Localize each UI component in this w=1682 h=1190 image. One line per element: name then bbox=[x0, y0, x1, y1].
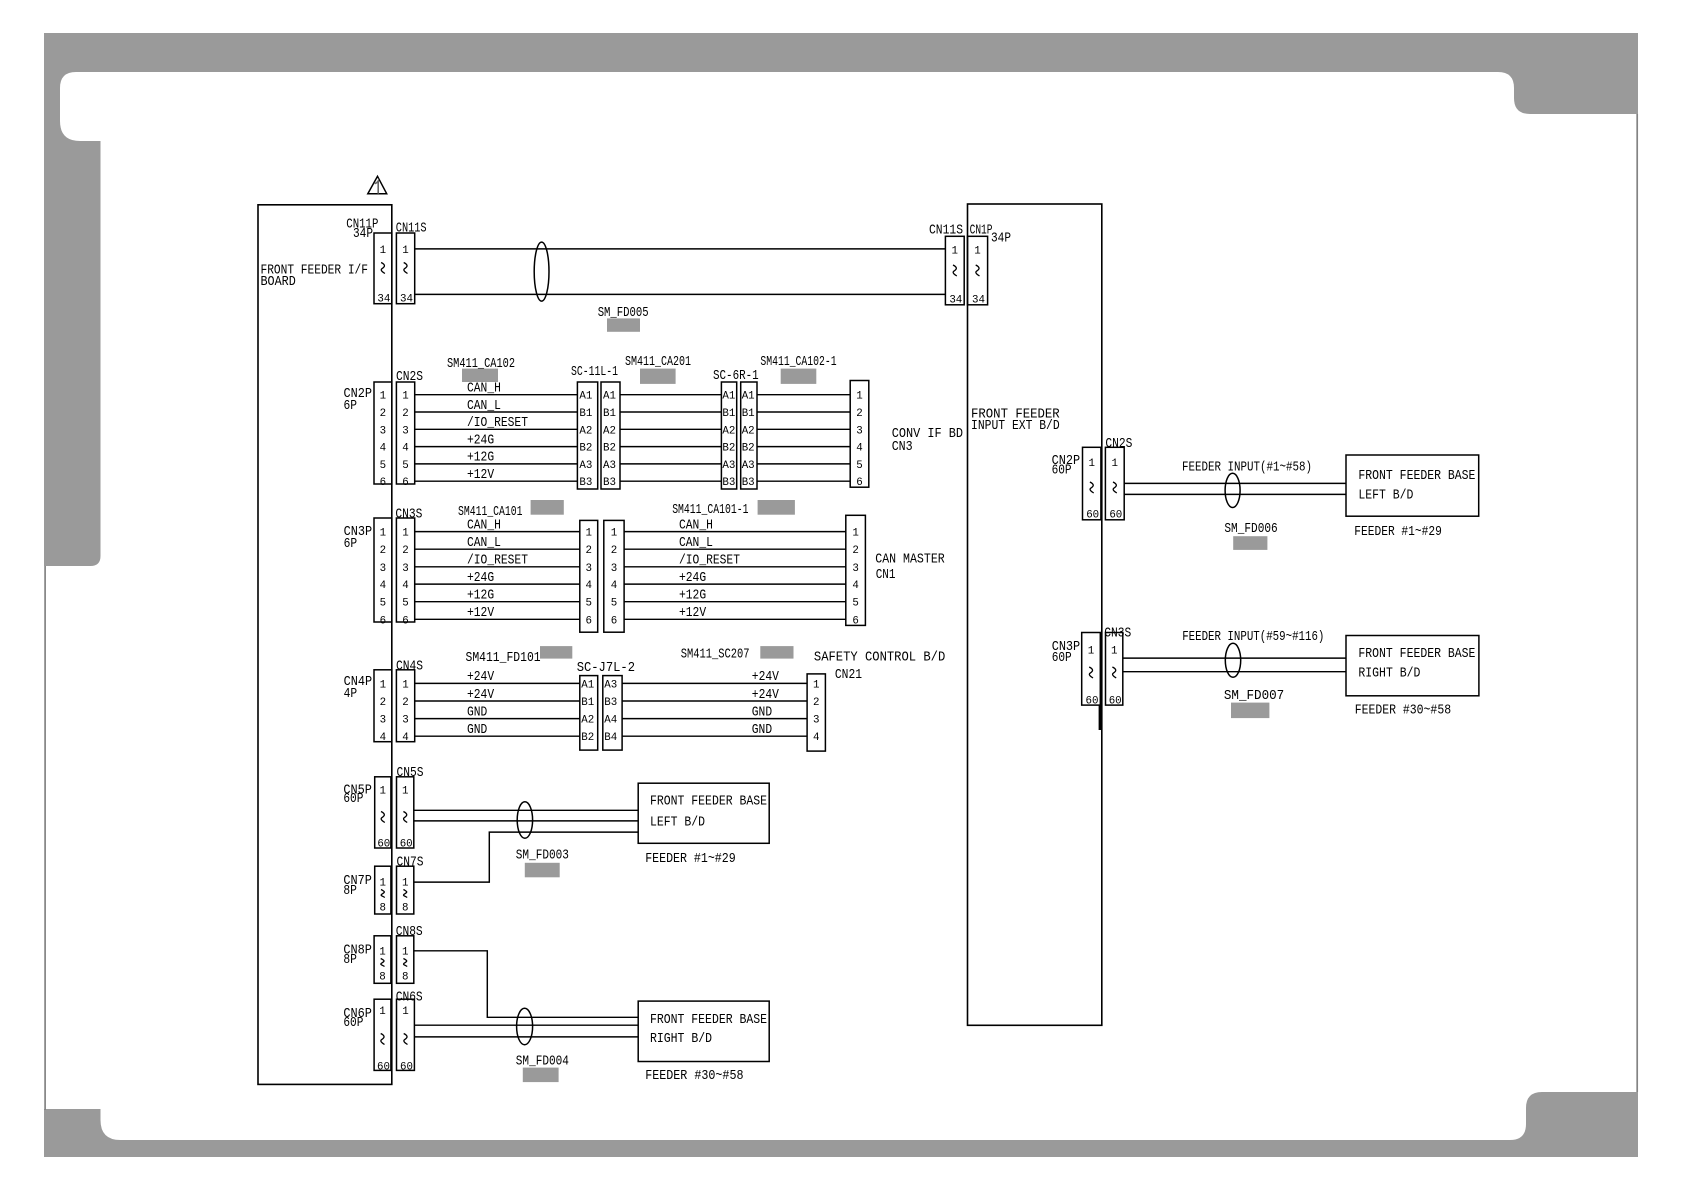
svg-text:CAN_L: CAN_L bbox=[467, 536, 501, 551]
svg-text:2: 2 bbox=[856, 408, 862, 420]
svg-text:CAN MASTER: CAN MASTER bbox=[875, 553, 944, 568]
connector CN5S bbox=[397, 766, 424, 850]
connector CN4S bbox=[396, 659, 423, 744]
connector CN6S bbox=[396, 991, 423, 1074]
svg-text:60P: 60P bbox=[1052, 464, 1072, 479]
svg-text:5: 5 bbox=[402, 460, 408, 472]
svg-text:B4: B4 bbox=[604, 732, 617, 744]
svg-text:FRONT FEEDER BASE: FRONT FEEDER BASE bbox=[1358, 469, 1475, 484]
svg-text:34: 34 bbox=[400, 294, 413, 306]
svg-text:4: 4 bbox=[402, 580, 408, 592]
wire CN11 pin34 bus bbox=[415, 293, 946, 295]
svg-text:SM_FD004: SM_FD004 bbox=[516, 1054, 569, 1069]
tag SM_FD006 bbox=[1224, 522, 1277, 550]
wire +24V (CN4S to SC-J7L-2) bbox=[415, 688, 580, 703]
wire CN2 row 4 (SC-11L-1 to SC-6R-1) bbox=[620, 446, 721, 448]
svg-text:A1: A1 bbox=[581, 679, 594, 691]
svg-text:+24V: +24V bbox=[467, 670, 495, 685]
svg-text:INPUT EXT B/D: INPUT EXT B/D bbox=[971, 419, 1060, 434]
svg-text:1: 1 bbox=[813, 679, 819, 691]
svg-text:CAN_L: CAN_L bbox=[679, 536, 713, 551]
svg-text:FEEDER #1~#29: FEEDER #1~#29 bbox=[1354, 525, 1442, 540]
svg-text:60: 60 bbox=[400, 839, 413, 851]
svg-text:2: 2 bbox=[611, 545, 617, 557]
svg-text:3: 3 bbox=[380, 715, 386, 727]
svg-text:CN5S: CN5S bbox=[397, 766, 424, 781]
svg-text:+12G: +12G bbox=[467, 589, 494, 604]
wire +24G (CA101-1 to CAN MASTER) bbox=[624, 571, 846, 586]
svg-text:CN8S: CN8S bbox=[396, 925, 423, 940]
page border: gray bottom band with corner blocks bbox=[44, 1092, 1638, 1157]
connector CN3P 60P (right board) bbox=[1052, 633, 1101, 708]
svg-text:6: 6 bbox=[611, 615, 617, 627]
svg-text:FRONT FEEDER BASE: FRONT FEEDER BASE bbox=[1358, 647, 1475, 662]
svg-text:SM411_FD101: SM411_FD101 bbox=[466, 651, 541, 666]
svg-text:2: 2 bbox=[402, 697, 408, 709]
svg-text:FEEDER #30~#58: FEEDER #30~#58 bbox=[1355, 704, 1451, 719]
wire GND (SC-J7L-2 to SAFETY CONTROL) bbox=[622, 723, 807, 738]
svg-text:B2: B2 bbox=[742, 443, 755, 455]
svg-text:FEEDER INPUT(#1~#58): FEEDER INPUT(#1~#58) bbox=[1182, 461, 1312, 476]
wire CN7 to LEFT B/D (bent) bbox=[414, 832, 638, 882]
svg-text:A1: A1 bbox=[742, 391, 755, 403]
svg-text:34P: 34P bbox=[353, 227, 373, 242]
wire GND (CN4S to SC-J7L-2) bbox=[415, 705, 580, 720]
svg-text:60: 60 bbox=[400, 1062, 413, 1074]
svg-text:GND: GND bbox=[752, 723, 772, 738]
svg-text:1: 1 bbox=[380, 528, 386, 540]
svg-text:CN1P: CN1P bbox=[970, 224, 993, 239]
wire feeder input bus1 row1 bbox=[1124, 482, 1346, 484]
svg-text:B1: B1 bbox=[603, 408, 616, 420]
svg-text:4: 4 bbox=[585, 580, 591, 592]
svg-text:60: 60 bbox=[1109, 695, 1122, 707]
svg-text:CAN_H: CAN_H bbox=[467, 518, 501, 533]
connector CN2P 60P (right board) bbox=[1052, 447, 1101, 521]
connector CN8P bbox=[343, 936, 391, 984]
wire CN6 feeder bus row1 bbox=[414, 1024, 638, 1026]
svg-text:2: 2 bbox=[813, 697, 819, 709]
svg-text:5: 5 bbox=[611, 598, 617, 610]
connector CN5P bbox=[343, 777, 391, 851]
svg-text:1: 1 bbox=[585, 528, 591, 540]
svg-text:FRONT FEEDER BASE: FRONT FEEDER BASE bbox=[650, 795, 767, 810]
svg-text:RIGHT B/D: RIGHT B/D bbox=[1358, 667, 1420, 682]
wire +12G (CN3S to SM411_CA101) bbox=[415, 589, 580, 604]
svg-text:B3: B3 bbox=[603, 477, 616, 489]
wire +24V (SC-J7L-2 to SAFETY CONTROL) bbox=[622, 670, 807, 685]
svg-text:3: 3 bbox=[611, 563, 617, 575]
page border: thin right edge line bbox=[1636, 114, 1638, 1092]
svg-text:A3: A3 bbox=[604, 679, 617, 691]
connector CN7S bbox=[397, 856, 424, 915]
wire +24V (CN4S to SC-J7L-2) bbox=[415, 670, 580, 685]
svg-text:1: 1 bbox=[379, 947, 385, 959]
svg-text:1: 1 bbox=[952, 246, 958, 258]
svg-text:B2: B2 bbox=[581, 732, 594, 744]
connector CN3S (right board) bbox=[1104, 627, 1131, 708]
svg-text:SM411_CA201: SM411_CA201 bbox=[625, 355, 691, 370]
wire CN2 row 4 (SC-6R-1 to CONV IF BD) bbox=[757, 446, 850, 448]
svg-text:4: 4 bbox=[611, 580, 617, 592]
connector SC-6R-1 socket bbox=[741, 382, 757, 489]
svg-text:SAFETY CONTROL B/D: SAFETY CONTROL B/D bbox=[814, 650, 945, 665]
svg-text:2: 2 bbox=[852, 545, 858, 557]
connector CN8S bbox=[396, 925, 423, 984]
wire CN5 feeder bus row2 bbox=[414, 820, 638, 822]
svg-text:5: 5 bbox=[852, 598, 858, 610]
svg-text:+12V: +12V bbox=[679, 606, 707, 621]
wire +12G (CA101-1 to CAN MASTER) bbox=[624, 589, 846, 604]
wire /IO_RESET (CA101-1 to CAN MASTER) bbox=[624, 554, 846, 569]
svg-text:A1: A1 bbox=[579, 391, 592, 403]
svg-text:3: 3 bbox=[852, 563, 858, 575]
page border: gray top-right corner block bbox=[1490, 33, 1638, 114]
svg-text:2: 2 bbox=[380, 697, 386, 709]
connector CA101 plug bbox=[580, 520, 598, 632]
wire +24V (SC-J7L-2 to SAFETY CONTROL) bbox=[622, 688, 807, 703]
board FRONT FEEDER INPUT EXT B/D bbox=[968, 204, 1102, 1025]
svg-text:LEFT B/D: LEFT B/D bbox=[650, 816, 705, 831]
svg-text:8: 8 bbox=[379, 972, 385, 984]
wire CAN_L (CN3S to SM411_CA101) bbox=[415, 536, 580, 551]
connector SC-11L-1 socket bbox=[601, 382, 620, 489]
wire feeder input bus2 row2 bbox=[1123, 671, 1346, 673]
wire +24G (CN2S to SC-11L-1) bbox=[415, 433, 578, 448]
wire CN2 row 1 (SC-6R-1 to CONV IF BD) bbox=[757, 394, 850, 396]
svg-text:1: 1 bbox=[380, 245, 386, 257]
cable sleeve SM_FD004 bbox=[517, 1008, 533, 1044]
connector CN2P bbox=[344, 382, 392, 489]
svg-text:1: 1 bbox=[402, 245, 408, 257]
svg-text:A2: A2 bbox=[722, 425, 735, 437]
svg-text:1: 1 bbox=[402, 786, 408, 798]
svg-text:5: 5 bbox=[402, 598, 408, 610]
svg-text:CN2S: CN2S bbox=[1105, 437, 1132, 452]
svg-text:B2: B2 bbox=[722, 443, 735, 455]
svg-text:CN1: CN1 bbox=[876, 568, 896, 583]
tag SM411_CA102 bbox=[447, 357, 515, 382]
svg-text:SM411_CA101: SM411_CA101 bbox=[458, 505, 523, 520]
svg-text:+24V: +24V bbox=[467, 688, 495, 703]
svg-text:2: 2 bbox=[402, 408, 408, 420]
svg-text:4P: 4P bbox=[344, 687, 358, 702]
wire feeder input bus2 row1 bbox=[1123, 657, 1346, 659]
svg-text:B3: B3 bbox=[604, 697, 617, 709]
svg-text:60: 60 bbox=[1109, 510, 1122, 522]
tag SM411_CA101-1 bbox=[672, 500, 795, 518]
svg-text:3: 3 bbox=[380, 425, 386, 437]
svg-text:60P: 60P bbox=[1052, 651, 1072, 666]
wire +12V (CN3S to SM411_CA101) bbox=[415, 606, 580, 621]
board FRONT FEEDER BASE RIGHT B/D (right) bbox=[1346, 636, 1479, 696]
svg-text:60P: 60P bbox=[343, 792, 363, 807]
wire CN5 feeder bus row1 bbox=[414, 809, 638, 811]
svg-text:4: 4 bbox=[813, 732, 819, 744]
svg-text:1: 1 bbox=[402, 391, 408, 403]
svg-text:60: 60 bbox=[1086, 695, 1099, 707]
svg-text:SM411_SC207: SM411_SC207 bbox=[681, 648, 750, 663]
svg-text:RIGHT B/D: RIGHT B/D bbox=[650, 1032, 712, 1047]
svg-text:A2: A2 bbox=[581, 715, 594, 727]
svg-text:A1: A1 bbox=[722, 391, 735, 403]
connector CN6P bbox=[343, 999, 391, 1073]
wire CAN_L (CA101-1 to CAN MASTER) bbox=[624, 536, 846, 551]
connector CONV IF BD CN3 bbox=[850, 381, 963, 490]
svg-text:A2: A2 bbox=[603, 425, 616, 437]
wire /IO_RESET (CN2S to SC-11L-1) bbox=[415, 416, 578, 431]
svg-text:1: 1 bbox=[380, 679, 386, 691]
svg-text:8: 8 bbox=[380, 903, 386, 915]
wire CN11 pin1 bus bbox=[415, 248, 946, 250]
svg-text:SM411_CA102-1: SM411_CA102-1 bbox=[760, 355, 836, 370]
svg-text:CN2S: CN2S bbox=[396, 370, 423, 385]
revision triangle 1 bbox=[368, 176, 387, 193]
board FRONT FEEDER BASE LEFT B/D (left) bbox=[638, 783, 769, 843]
svg-text:FRONT FEEDER BASE: FRONT FEEDER BASE bbox=[650, 1013, 767, 1028]
svg-text:8: 8 bbox=[402, 972, 408, 984]
svg-text:5: 5 bbox=[856, 460, 862, 472]
connector SC-11L-1 plug bbox=[571, 365, 618, 489]
svg-text:B1: B1 bbox=[742, 408, 755, 420]
svg-text:A2: A2 bbox=[579, 425, 592, 437]
svg-text:4: 4 bbox=[402, 732, 408, 744]
svg-text:6: 6 bbox=[402, 477, 408, 489]
svg-text:B3: B3 bbox=[742, 477, 755, 489]
wire /IO_RESET (CN3S to SM411_CA101) bbox=[415, 554, 580, 569]
svg-text:1: 1 bbox=[1112, 458, 1118, 470]
svg-text:1: 1 bbox=[379, 1006, 385, 1018]
svg-text:CN3S: CN3S bbox=[395, 508, 422, 523]
svg-text:+12V: +12V bbox=[467, 468, 495, 483]
connector CN11S bbox=[396, 222, 427, 306]
svg-text:CAN_H: CAN_H bbox=[467, 382, 501, 397]
wire +12G (CN2S to SC-11L-1) bbox=[415, 451, 578, 466]
wire CN2 row 2 (SC-11L-1 to SC-6R-1) bbox=[620, 411, 721, 413]
svg-text:FEEDER #1~#29: FEEDER #1~#29 bbox=[645, 852, 736, 867]
svg-text:SM411_CA101-1: SM411_CA101-1 bbox=[672, 503, 748, 518]
svg-text:1: 1 bbox=[1088, 646, 1094, 658]
wire CN2 row 3 (SC-11L-1 to SC-6R-1) bbox=[620, 428, 721, 430]
svg-text:+12V: +12V bbox=[467, 606, 495, 621]
svg-text:1: 1 bbox=[852, 528, 858, 540]
cable sleeve SM_FD003 bbox=[517, 802, 532, 838]
svg-text:6: 6 bbox=[585, 615, 591, 627]
connector CN3S bbox=[395, 508, 422, 628]
svg-text:/IO_RESET: /IO_RESET bbox=[467, 416, 528, 431]
svg-text:4: 4 bbox=[380, 443, 386, 455]
svg-text:2: 2 bbox=[402, 545, 408, 557]
svg-text:34: 34 bbox=[949, 295, 962, 307]
connector SC-J7L-2 socket bbox=[603, 676, 622, 751]
svg-text:60: 60 bbox=[377, 1062, 390, 1074]
svg-text:6P: 6P bbox=[344, 399, 358, 414]
svg-text:SM_FD003: SM_FD003 bbox=[516, 848, 569, 863]
svg-text:5: 5 bbox=[380, 460, 386, 472]
connector CN11S (right) bbox=[929, 224, 964, 307]
connector CN1P bbox=[968, 224, 1012, 307]
board FRONT FEEDER I/F BOARD bbox=[258, 205, 392, 1085]
wire CN2 row 6 (SC-11L-1 to SC-6R-1) bbox=[620, 480, 721, 482]
wire CN2 row 6 (SC-6R-1 to CONV IF BD) bbox=[757, 480, 850, 482]
svg-text:CN11S: CN11S bbox=[929, 224, 963, 239]
connector SC-6R-1 plug bbox=[713, 369, 759, 489]
svg-text:6: 6 bbox=[402, 615, 408, 627]
svg-text:1: 1 bbox=[1111, 646, 1117, 658]
wire CN2 row 1 (SC-11L-1 to SC-6R-1) bbox=[620, 394, 721, 396]
svg-text:B1: B1 bbox=[722, 408, 735, 420]
connector SC-J7L-2 plug bbox=[577, 661, 635, 750]
svg-text:6: 6 bbox=[380, 615, 386, 627]
svg-text:GND: GND bbox=[467, 723, 487, 738]
connector CN2S (right board) bbox=[1105, 437, 1132, 522]
svg-text:1: 1 bbox=[611, 528, 617, 540]
svg-text:34: 34 bbox=[377, 294, 390, 306]
connector CA101 socket bbox=[604, 520, 624, 632]
svg-text:A3: A3 bbox=[742, 460, 755, 472]
wire CAN_H (CN2S to SC-11L-1) bbox=[415, 382, 578, 397]
svg-text:/IO_RESET: /IO_RESET bbox=[467, 554, 528, 569]
svg-text:SC-11L-1: SC-11L-1 bbox=[571, 365, 618, 380]
svg-text:6: 6 bbox=[856, 477, 862, 489]
tag SM411_CA102-1 bbox=[760, 355, 836, 384]
svg-text:8P: 8P bbox=[343, 953, 357, 968]
wire CAN_L (CN2S to SC-11L-1) bbox=[415, 399, 578, 414]
svg-text:3: 3 bbox=[402, 563, 408, 575]
svg-text:GND: GND bbox=[467, 705, 487, 720]
svg-text:2: 2 bbox=[585, 545, 591, 557]
board FRONT FEEDER BASE LEFT B/D (right) bbox=[1346, 455, 1479, 516]
svg-text:FEEDER INPUT(#59~#116): FEEDER INPUT(#59~#116) bbox=[1182, 630, 1324, 645]
svg-text:B1: B1 bbox=[581, 697, 594, 709]
svg-text:4: 4 bbox=[852, 580, 858, 592]
svg-text:+24G: +24G bbox=[679, 571, 706, 586]
svg-text:CN21: CN21 bbox=[835, 668, 862, 683]
svg-text:8P: 8P bbox=[343, 884, 357, 899]
svg-text:/IO_RESET: /IO_RESET bbox=[679, 554, 740, 569]
svg-text:6: 6 bbox=[380, 477, 386, 489]
svg-text:60: 60 bbox=[377, 839, 390, 851]
svg-text:SC-J7L-2: SC-J7L-2 bbox=[577, 661, 635, 676]
wire CN2 row 2 (SC-6R-1 to CONV IF BD) bbox=[757, 411, 850, 413]
svg-text:SM_FD007: SM_FD007 bbox=[1224, 689, 1284, 704]
svg-text:60: 60 bbox=[1086, 510, 1099, 522]
wire GND (SC-J7L-2 to SAFETY CONTROL) bbox=[622, 705, 807, 720]
svg-text:2: 2 bbox=[380, 545, 386, 557]
connector CN3P bbox=[344, 518, 392, 627]
svg-text:CN7S: CN7S bbox=[397, 856, 424, 871]
svg-text:+12G: +12G bbox=[467, 451, 494, 466]
svg-text:B3: B3 bbox=[579, 477, 592, 489]
svg-text:A3: A3 bbox=[603, 460, 616, 472]
svg-text:A3: A3 bbox=[579, 460, 592, 472]
wire CN2 row 5 (SC-11L-1 to SC-6R-1) bbox=[620, 463, 721, 465]
wire CAN_H (CN3S to SM411_CA101) bbox=[415, 518, 580, 533]
svg-text:1: 1 bbox=[402, 877, 408, 889]
wire +12V (CN2S to SC-11L-1) bbox=[415, 468, 578, 483]
svg-text:A2: A2 bbox=[742, 425, 755, 437]
svg-text:LEFT B/D: LEFT B/D bbox=[1358, 488, 1413, 503]
svg-text:B3: B3 bbox=[722, 477, 735, 489]
svg-text:CN11S: CN11S bbox=[396, 222, 427, 237]
svg-text:3: 3 bbox=[856, 425, 862, 437]
svg-text:A4: A4 bbox=[604, 715, 617, 727]
tag SM_FD003 bbox=[516, 848, 569, 877]
svg-text:CAN_H: CAN_H bbox=[679, 518, 713, 533]
connector CAN MASTER CN1 bbox=[846, 515, 945, 627]
svg-text:6P: 6P bbox=[344, 537, 358, 552]
wire +12V (CA101-1 to CAN MASTER) bbox=[624, 606, 846, 621]
svg-text:CN6S: CN6S bbox=[396, 991, 423, 1006]
svg-text:2: 2 bbox=[380, 408, 386, 420]
tag SM411_FD101 bbox=[466, 646, 573, 666]
cable sleeve on CN11 bus bbox=[534, 242, 549, 301]
svg-text:1: 1 bbox=[402, 947, 408, 959]
svg-text:8: 8 bbox=[402, 903, 408, 915]
svg-text:SM_FD006: SM_FD006 bbox=[1224, 522, 1277, 537]
svg-text:FEEDER #30~#58: FEEDER #30~#58 bbox=[645, 1069, 743, 1084]
tag SM_FD005 bbox=[598, 306, 649, 332]
svg-text:3: 3 bbox=[585, 563, 591, 575]
wire CN6 feeder bus row2 bbox=[414, 1036, 638, 1038]
svg-text:CN4S: CN4S bbox=[396, 659, 423, 674]
svg-text:34: 34 bbox=[972, 295, 985, 307]
svg-text:B2: B2 bbox=[603, 443, 616, 455]
wire +24G (CN3S to SM411_CA101) bbox=[415, 571, 580, 586]
svg-text:1: 1 bbox=[402, 679, 408, 691]
svg-text:1: 1 bbox=[402, 1006, 408, 1018]
svg-text:B1: B1 bbox=[579, 408, 592, 420]
wire CAN_H (CA101-1 to CAN MASTER) bbox=[624, 518, 846, 533]
svg-text:+24V: +24V bbox=[752, 670, 780, 685]
svg-text:60P: 60P bbox=[343, 1016, 363, 1031]
wire CN8 to RIGHT B/D (bent) bbox=[414, 951, 638, 1018]
svg-text:4: 4 bbox=[402, 443, 408, 455]
tag SM_FD007 bbox=[1224, 689, 1284, 718]
wire CN2 row 5 (SC-6R-1 to CONV IF BD) bbox=[757, 463, 850, 465]
svg-text:+24G: +24G bbox=[467, 571, 494, 586]
svg-text:4: 4 bbox=[380, 732, 386, 744]
svg-text:5: 5 bbox=[380, 598, 386, 610]
connector CN2S bbox=[396, 370, 423, 489]
svg-text:4: 4 bbox=[380, 580, 386, 592]
cable sleeve SM_FD006 bbox=[1225, 473, 1240, 507]
connector CN11P bbox=[346, 218, 392, 306]
svg-text:3: 3 bbox=[813, 715, 819, 727]
stub line below CN3P (right board) bbox=[1099, 705, 1101, 730]
svg-text:1: 1 bbox=[380, 877, 386, 889]
svg-text:BOARD: BOARD bbox=[261, 275, 296, 290]
connector SAFETY CONTROL B/D CN21 bbox=[807, 650, 945, 751]
svg-text:1: 1 bbox=[974, 246, 980, 258]
svg-text:CN3: CN3 bbox=[892, 440, 913, 455]
connector CN4P bbox=[344, 670, 392, 744]
svg-text:A3: A3 bbox=[722, 460, 735, 472]
tag SM411_CA201 bbox=[625, 355, 691, 384]
svg-text:1: 1 bbox=[402, 528, 408, 540]
connector CN7P bbox=[343, 866, 391, 914]
svg-text:1: 1 bbox=[856, 391, 862, 403]
svg-text:6: 6 bbox=[852, 615, 858, 627]
svg-text:CN3S: CN3S bbox=[1104, 627, 1131, 642]
svg-text:3: 3 bbox=[402, 715, 408, 727]
svg-text:1: 1 bbox=[380, 391, 386, 403]
svg-text:GND: GND bbox=[752, 705, 772, 720]
svg-text:4: 4 bbox=[856, 443, 862, 455]
svg-text:+24V: +24V bbox=[752, 688, 780, 703]
svg-text:1: 1 bbox=[380, 786, 386, 798]
cable sleeve SM_FD007 bbox=[1225, 643, 1240, 677]
